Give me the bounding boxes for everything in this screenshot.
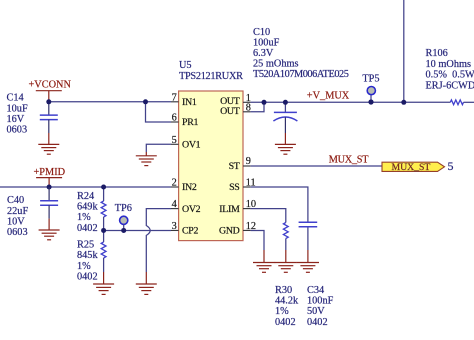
svg-text:100uF: 100uF (253, 38, 280, 49)
svg-text:TP5: TP5 (362, 74, 379, 85)
pin 4 stub (171, 208, 179, 210)
resistor R25 zigzag (101, 242, 106, 258)
wire vertical feed from top edge (403, 0, 405, 102)
svg-text:C14: C14 (7, 93, 24, 104)
wire R30 bottom lead (285, 239, 287, 251)
svg-text:16V: 16V (7, 114, 25, 125)
wire GND pin 12 down (251, 230, 264, 250)
resistor R24 zigzag (101, 201, 106, 217)
svg-text:0402: 0402 (77, 272, 98, 283)
ground below R25 (93, 272, 114, 294)
pin 7 stub (171, 101, 179, 103)
svg-text:OUT: OUT (220, 106, 240, 117)
svg-text:C40: C40 (7, 195, 24, 206)
R25 value label (77, 240, 98, 283)
svg-text:R106: R106 (426, 48, 448, 59)
op-amp U5 body (TPS2121 power mux IC) (179, 91, 243, 241)
node junction pin8 tie (262, 100, 267, 105)
svg-text:1%: 1% (77, 261, 91, 272)
pin 11 stub (243, 186, 251, 188)
svg-text:R24: R24 (77, 191, 94, 202)
svg-text:5: 5 (448, 159, 454, 173)
svg-text:6: 6 (172, 113, 177, 124)
svg-text:+PMID: +PMID (34, 167, 66, 178)
svg-text:1%: 1% (77, 212, 91, 223)
svg-text:6.3V: 6.3V (253, 48, 274, 59)
svg-text:44.2k: 44.2k (275, 296, 299, 307)
wire OV1 to ground (146, 144, 171, 152)
power symbol +VCONN (29, 80, 72, 102)
pin 6 stub (171, 121, 179, 123)
pin 3 stub (171, 229, 179, 231)
R30 value label (275, 285, 299, 328)
wire ST pin 9 to MUX_ST connector (251, 165, 382, 167)
svg-text:4: 4 (172, 199, 177, 210)
capacitor C14 (40, 102, 58, 133)
ground below R30 (275, 250, 297, 272)
pin 9 stub (243, 165, 251, 167)
node junction TP5 (368, 99, 373, 104)
svg-text:2: 2 (172, 178, 177, 189)
ground below OV1 (136, 152, 157, 166)
pin 8 stub (243, 111, 251, 113)
wire TP5 stub (370, 95, 372, 102)
svg-text:T520A107M006ATE025: T520A107M006ATE025 (253, 69, 349, 80)
svg-text:3: 3 (172, 221, 177, 232)
C34 value label (307, 285, 334, 328)
svg-text:22uF: 22uF (7, 206, 28, 217)
svg-text:C34: C34 (307, 285, 324, 296)
svg-text:0402: 0402 (307, 317, 328, 328)
svg-text:PR1: PR1 (182, 117, 198, 128)
wire R24 top lead (103, 187, 105, 201)
svg-text:SS: SS (229, 182, 239, 193)
wire +VCONN node to pin 7 (49, 101, 171, 103)
svg-text:GND: GND (219, 226, 240, 237)
wire R25 bottom lead (103, 258, 105, 272)
ground below C14 (38, 133, 59, 154)
wire R25 top lead (103, 230, 105, 242)
wire PR1 branch vertical (146, 102, 172, 122)
svg-text:0603: 0603 (7, 227, 28, 238)
resistor R106 zigzag (450, 100, 463, 105)
wire SS pin 11 to C34 (251, 187, 308, 222)
node junction +PMID/C40 (47, 185, 52, 190)
svg-text:+VCONN: +VCONN (29, 80, 72, 91)
svg-text:R25: R25 (77, 240, 94, 251)
wire node to CP2 pin 3 (104, 229, 171, 231)
svg-text:ST: ST (229, 161, 240, 172)
ground below C10 (275, 133, 296, 154)
capacitor C10 (polarized) (273, 112, 297, 133)
R24 value label (77, 191, 98, 234)
svg-text:7: 7 (172, 92, 177, 103)
svg-text:10uF: 10uF (7, 103, 28, 114)
svg-text:ILIM: ILIM (219, 204, 240, 215)
pin 12 stub (243, 229, 251, 231)
wire R24 bottom lead (103, 217, 105, 230)
capacitor C34 (299, 222, 318, 227)
svg-text:OV1: OV1 (182, 140, 201, 151)
wire C10 top lead (284, 102, 286, 112)
svg-text:25 mOhms: 25 mOhms (253, 58, 298, 69)
svg-text:OV2: OV2 (182, 204, 201, 215)
C40 value label (7, 195, 28, 238)
node junction top feed (401, 100, 406, 105)
node junction TP6 (121, 228, 126, 233)
wire +PMID rail to pin 2 (0, 186, 171, 188)
svg-text:U5: U5 (179, 60, 192, 71)
test point TP5 (362, 74, 379, 95)
wire OUT pin1 to +V_MUX rail and R106 (251, 101, 451, 103)
node junction R24 top (101, 185, 106, 190)
svg-text:MUX_ST: MUX_ST (392, 162, 431, 173)
node junction PR1 branch (143, 99, 148, 104)
svg-text:1%: 1% (275, 306, 289, 317)
svg-text:10 mOhms: 10 mOhms (426, 59, 471, 70)
svg-text:IN1: IN1 (182, 97, 197, 108)
svg-text:ERJ-6CWDR: ERJ-6CWDR (426, 80, 474, 91)
capacitor C40 (40, 187, 58, 219)
svg-text:R30: R30 (275, 285, 292, 296)
pin 10 stub (243, 208, 251, 210)
svg-text:10V: 10V (7, 217, 25, 228)
node junction R24/R25/CP2 (101, 228, 106, 233)
power symbol +PMID (34, 167, 66, 187)
node junction +VCONN/C14 (46, 99, 51, 104)
U5 reference label (179, 60, 243, 82)
wire OUT pin8 link (251, 102, 264, 112)
pin 2 stub (171, 186, 179, 188)
wire C34 bottom lead (307, 227, 309, 250)
pin 5 stub (171, 143, 179, 145)
svg-text:8: 8 (246, 102, 251, 113)
svg-text:+V_MUX: +V_MUX (307, 91, 350, 102)
off-page connector MUX_ST (382, 162, 445, 173)
svg-text:0603: 0603 (7, 125, 28, 136)
wire ILIM pin 10 to R30 (251, 209, 286, 223)
svg-text:0402: 0402 (77, 223, 98, 234)
svg-text:0402: 0402 (275, 317, 296, 328)
svg-text:5: 5 (172, 135, 177, 146)
ground below C34 (297, 250, 319, 272)
svg-text:649k: 649k (77, 202, 98, 213)
test point TP6 (115, 203, 132, 231)
resistor R30 zigzag (283, 223, 288, 239)
svg-text:C10: C10 (253, 27, 270, 38)
ground below pin 12 (253, 250, 275, 272)
ground below C40 (39, 219, 60, 240)
C10 value label (253, 27, 349, 80)
svg-text:TPS2121RUXR: TPS2121RUXR (179, 71, 243, 82)
svg-text:0.5% 0.5W: 0.5% 0.5W (426, 69, 474, 80)
wire OV2 to ground with hop over CP2 wire (146, 209, 171, 272)
svg-text:9: 9 (246, 156, 251, 167)
R106 value label (426, 48, 474, 91)
svg-text:845k: 845k (77, 250, 98, 261)
ground below OV2 (136, 272, 157, 294)
svg-text:100nF: 100nF (307, 296, 334, 307)
svg-text:CP2: CP2 (182, 226, 198, 237)
C14 value label (7, 93, 28, 136)
svg-text:50V: 50V (307, 306, 325, 317)
pin 1 stub (243, 101, 251, 103)
wire R106 right lead to edge (464, 101, 474, 103)
node junction C10 (283, 100, 288, 105)
svg-text:IN2: IN2 (182, 182, 197, 193)
svg-text:TP6: TP6 (115, 203, 132, 214)
svg-text:MUX_ST: MUX_ST (329, 154, 369, 165)
